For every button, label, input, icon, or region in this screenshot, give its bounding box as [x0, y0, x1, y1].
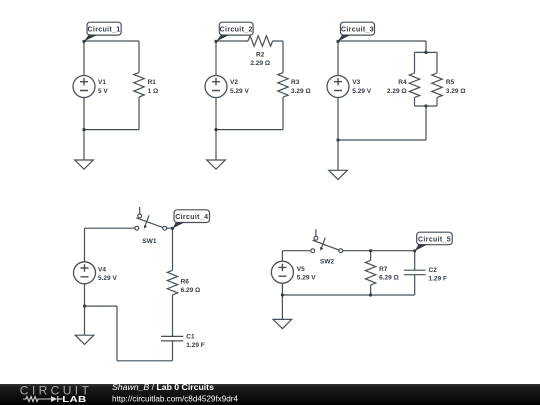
svg-text:6.29 Ω: 6.29 Ω	[379, 275, 399, 282]
svg-text:3.29 Ω: 3.29 Ω	[291, 88, 311, 95]
svg-text:1 Ω: 1 Ω	[148, 88, 159, 95]
svg-text:SW1: SW1	[142, 238, 156, 245]
svg-text:R1: R1	[148, 79, 157, 86]
svg-text:R7: R7	[379, 266, 388, 273]
svg-text:R3: R3	[291, 79, 300, 86]
svg-text:http://circuitlab.com/c8d4529f: http://circuitlab.com/c8d4529fx9dr4	[112, 394, 238, 403]
svg-text:Circuit_3: Circuit_3	[341, 27, 374, 34]
svg-text:R6: R6	[181, 279, 190, 286]
svg-text:2.29 Ω: 2.29 Ω	[250, 60, 270, 67]
svg-text:5.29 V: 5.29 V	[352, 88, 371, 95]
svg-text:5.29 V: 5.29 V	[297, 274, 316, 281]
svg-text:V2: V2	[230, 79, 238, 86]
svg-text:R5: R5	[446, 79, 455, 86]
svg-text:Circuit_2: Circuit_2	[220, 27, 253, 34]
svg-text:C1: C1	[186, 333, 195, 340]
svg-text:V5: V5	[297, 266, 305, 273]
svg-text:5.29 V: 5.29 V	[230, 88, 249, 95]
svg-text:V1: V1	[98, 79, 106, 86]
svg-text:V4: V4	[98, 267, 106, 274]
svg-text:1.29 F: 1.29 F	[429, 276, 447, 283]
svg-text:5 V: 5 V	[98, 88, 108, 95]
svg-text:Shawn_B / Lab 0 Circuits: Shawn_B / Lab 0 Circuits	[112, 382, 214, 392]
svg-text:Circuit_4: Circuit_4	[175, 214, 208, 221]
svg-text:SW2: SW2	[320, 258, 334, 265]
svg-text:Circuit_5: Circuit_5	[418, 237, 451, 244]
svg-text:1.29 F: 1.29 F	[186, 342, 204, 349]
svg-text:R2: R2	[256, 51, 265, 58]
svg-text:3.29 Ω: 3.29 Ω	[446, 88, 466, 95]
svg-text:6.29 Ω: 6.29 Ω	[181, 287, 201, 294]
svg-text:R4: R4	[398, 79, 407, 86]
svg-text:5.29 V: 5.29 V	[98, 275, 117, 282]
svg-text:V3: V3	[352, 79, 360, 86]
svg-text:Circuit_1: Circuit_1	[88, 27, 121, 34]
svg-text:2.29 Ω: 2.29 Ω	[387, 88, 407, 95]
svg-text:C2: C2	[429, 267, 438, 274]
svg-text:LAB: LAB	[62, 396, 86, 405]
